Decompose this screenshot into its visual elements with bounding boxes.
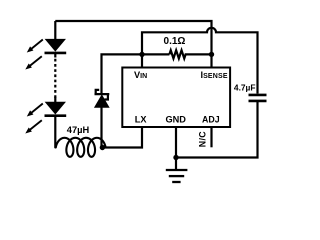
node VIN junction dot	[139, 52, 144, 57]
svg-text:N/C: N/C	[198, 131, 208, 147]
LED D3 emission arrows	[29, 104, 43, 131]
LED D2	[45, 39, 67, 57]
svg-text:0.1Ω: 0.1Ω	[164, 36, 186, 47]
node GND junction dot	[173, 155, 178, 160]
LED D3	[45, 97, 67, 148]
wire: dashed link between LEDs	[54, 59, 56, 99]
node ISENSE junction dot	[209, 52, 214, 57]
inductor L1 47uH coil	[55, 138, 108, 157]
svg-text:ADJ: ADJ	[202, 115, 220, 125]
wire: LED string left vertical	[54, 21, 56, 40]
wire: LX pin down-left to coil node	[102, 127, 142, 148]
resistor R1 0.1ohm	[169, 50, 211, 58]
svg-text:LX: LX	[135, 115, 148, 125]
LED D2 emission arrows	[29, 40, 43, 67]
schottky diode D1	[95, 90, 110, 148]
IC U1 box	[122, 68, 230, 128]
svg-text:GND: GND	[166, 115, 187, 125]
wire: GND pin down to ground	[175, 127, 177, 170]
wire: VIN up-and-over to output cap (with hop)	[142, 28, 258, 94]
ground symbol	[166, 170, 188, 182]
capacitor C1 4.7uF	[249, 95, 267, 101]
wire: sense resistor rail	[102, 54, 170, 93]
svg-text:4.7µF: 4.7µF	[234, 83, 256, 93]
node coil/diode/LX junction dot	[100, 145, 105, 150]
wire: ADJ stub (N/C)	[210, 127, 212, 147]
svg-text:47µH: 47µH	[67, 125, 90, 135]
wire: ground rail to cap bottom	[176, 102, 258, 158]
wire: top rail from LED string to ISENSE	[55, 21, 211, 68]
